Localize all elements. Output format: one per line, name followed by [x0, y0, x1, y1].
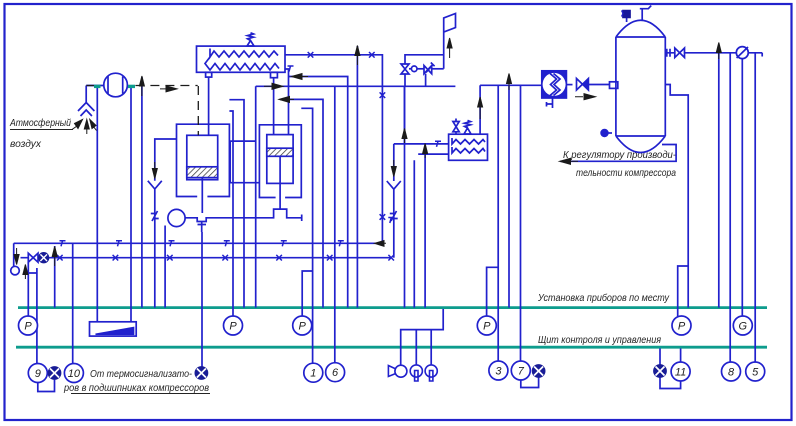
wire: HX1 right nozzle to cylinder 2	[273, 78, 275, 135]
svg-text:G: G	[739, 321, 748, 333]
valve V1	[401, 64, 409, 74]
dashed control line	[86, 85, 94, 87]
wire: drop to item 10	[72, 243, 74, 363]
valve V2 on AT2	[453, 119, 459, 135]
wire: manifold stub	[229, 100, 244, 308]
wire: funnel 2 to X-line	[393, 198, 395, 258]
svg-text:8: 8	[728, 367, 735, 379]
heat exchanger AT1 (intercooler)	[197, 46, 286, 72]
wire: funnel feed	[155, 139, 177, 181]
piston rod 1	[201, 178, 203, 213]
wire: AT1 second outlet to cylinder 2	[285, 69, 289, 135]
signal lamp	[654, 365, 667, 378]
flow arrow right below check valve	[575, 94, 595, 100]
item 9	[28, 364, 47, 383]
wire: AT2 drain lines	[413, 160, 415, 307]
svg-text:тельности компрессора: тельности компрессора	[576, 167, 676, 179]
flow arrow up	[716, 43, 721, 60]
T marks on T-line	[60, 241, 66, 247]
wire: AT1 outlet header	[285, 55, 382, 244]
crank drive line	[185, 209, 302, 221]
stub to lamp	[659, 349, 661, 365]
X marks on X-line	[57, 255, 63, 261]
drain funnel 2	[387, 181, 401, 198]
check valve	[577, 79, 583, 91]
X marks on process lines	[308, 52, 314, 58]
wire: jog to gauge P3	[302, 271, 312, 316]
flow arrow up to flag	[447, 38, 452, 58]
svg-text:От термосигнализато-: От термосигнализато-	[90, 368, 192, 380]
wire: drain to funnel 2	[393, 144, 395, 181]
valve V3	[675, 48, 685, 58]
signal flag	[444, 14, 456, 69]
wire: flag branch	[405, 55, 444, 64]
svg-text:P: P	[229, 321, 237, 333]
svg-text:Щит контроля и управления: Щит контроля и управления	[538, 334, 661, 346]
item 3	[489, 361, 508, 380]
wire: drop to item 8	[729, 53, 731, 362]
wire: check valve to vessel	[588, 84, 609, 86]
flow arrow left	[279, 96, 294, 102]
svg-text:5: 5	[752, 367, 759, 379]
nozzle	[271, 72, 278, 77]
angle valve	[424, 63, 435, 74]
wire: cylinder 2 right stub	[301, 108, 312, 363]
wire: jog to gauge P5	[678, 266, 689, 316]
air receiver vessel B1	[616, 20, 665, 152]
flow arrow up	[478, 97, 483, 119]
svg-text:7: 7	[518, 366, 525, 378]
wire: HX1 left nozzle to cylinder 1	[208, 77, 210, 135]
alarm horn	[388, 365, 407, 377]
pipe break symbol	[151, 211, 159, 221]
compressor cylinder 2 jacket	[259, 125, 301, 198]
crosshead 1	[198, 222, 207, 233]
gauge P3	[293, 316, 312, 335]
wire: drop to item 5	[754, 53, 756, 362]
piston 1	[187, 167, 218, 178]
wire: T-line tap to gauge	[13, 243, 15, 266]
inclined manometer	[90, 322, 137, 336]
svg-text:3: 3	[495, 366, 502, 378]
signal lamp	[195, 367, 208, 380]
wire: bus to AT3	[566, 84, 572, 86]
wire: discharge bus	[256, 85, 456, 87]
wire: vessel outlet to regulator	[560, 145, 676, 162]
gauge P2	[224, 316, 243, 335]
valve V4	[28, 253, 38, 262]
wire: drop to item 3	[497, 85, 499, 361]
svg-text:10: 10	[68, 368, 81, 380]
T-line (impulse bus)	[14, 242, 383, 244]
item 10	[64, 364, 83, 383]
green ticks at filter	[94, 85, 101, 88]
svg-text:P: P	[24, 321, 32, 333]
svg-text:ров в подшипниках компрессоров: ров в подшипниках компрессоров	[63, 382, 209, 394]
pilot circle	[411, 66, 417, 72]
wire: drop to boundary	[508, 85, 510, 307]
flow arrow down to funnel 1	[152, 162, 157, 179]
piston 2	[267, 148, 293, 156]
X-line (electric bus)	[21, 257, 392, 259]
svg-text:9: 9	[35, 368, 41, 380]
indicator lamp	[410, 365, 422, 381]
flow arrow up	[402, 129, 407, 144]
svg-text:Атмосферный: Атмосферный	[9, 117, 71, 129]
svg-text:1: 1	[310, 368, 316, 380]
wire: crank drain	[164, 226, 166, 308]
drain funnel 1	[148, 181, 162, 198]
svg-text:P: P	[483, 321, 491, 333]
vessel vent flag	[640, 6, 651, 21]
svg-text:P: P	[299, 321, 307, 333]
item 5	[746, 362, 765, 381]
bracket 9 to lamp	[38, 380, 55, 392]
wire: line to item 6	[334, 86, 336, 363]
bracket 7 to lamp	[521, 378, 539, 388]
gauge P1	[19, 316, 38, 335]
boundary line: control board	[16, 346, 767, 349]
indicator lamp	[425, 365, 437, 381]
wire: drop to item 7	[520, 85, 522, 361]
flow arrow up	[139, 76, 144, 96]
aftercooler AT3	[542, 71, 567, 108]
stub to item 11	[680, 349, 682, 363]
wire: jog to gauge P4	[487, 267, 499, 316]
wire: drop to gauge G	[741, 59, 743, 317]
T marks on lines	[288, 66, 294, 72]
boundary line: local instruments	[18, 306, 767, 309]
wire: drop to item 9	[25, 268, 37, 363]
svg-text:К регулятору производи-: К регулятору производи-	[563, 149, 676, 161]
wire: drop to boundary	[718, 53, 720, 308]
wire: cylinder 2 control line	[289, 77, 348, 308]
gauge P5	[672, 316, 691, 335]
safety valve SV2 on AT2	[464, 120, 471, 134]
signal lamp	[48, 367, 61, 380]
wire: valve to bus	[404, 74, 407, 308]
wire: manifold stub	[229, 111, 233, 316]
safety valve SV1 on AT1	[247, 33, 254, 46]
wire: descender	[255, 86, 257, 307]
lamp feeder	[401, 309, 444, 365]
flow arrow up	[23, 265, 28, 280]
wire: drop	[141, 77, 143, 308]
vessel gas outlet flanges	[665, 49, 675, 57]
flow arrow left on T-line end	[375, 241, 387, 247]
item 1	[304, 363, 323, 382]
wire: AT2 feed	[394, 143, 449, 145]
wire: vessel right instrument tap	[665, 85, 688, 308]
wire: cylinder 2 unloader line	[280, 99, 323, 307]
wire: filter drop right	[130, 88, 132, 322]
vessel drain fitting	[607, 132, 612, 134]
svg-text:воздух: воздух	[10, 138, 42, 150]
intake arrows	[72, 120, 83, 130]
wire: bus segment to AT3	[480, 84, 542, 86]
svg-text:6: 6	[332, 367, 339, 379]
signal lamp	[532, 365, 545, 378]
wire: intake to filter	[86, 85, 104, 87]
svg-text:11: 11	[675, 367, 686, 379]
air intake chevron	[78, 86, 94, 117]
gauge P4	[477, 316, 496, 335]
wire: angle valve to bus	[425, 74, 427, 87]
flow arrow down	[14, 248, 19, 265]
flow arrow up	[507, 74, 512, 91]
wire: bus drop to AT2 feed	[404, 86, 406, 144]
svg-text:Установка приборов по месту: Установка приборов по месту	[537, 292, 669, 304]
vessel vent fitting	[626, 17, 628, 22]
flow arrow right on bus	[264, 83, 283, 89]
compressor cylinder 2	[267, 135, 293, 184]
flow arrow up	[52, 247, 57, 267]
orifice / sight glass	[736, 47, 748, 59]
item 11	[671, 362, 690, 381]
gas cooler AT2	[449, 134, 488, 160]
arrow on dashed line	[160, 86, 177, 92]
item 7	[511, 361, 530, 380]
local gauge circle	[11, 266, 20, 275]
wire: filter drop left	[96, 88, 98, 322]
svg-text:P: P	[678, 321, 686, 333]
pipe break symbol	[390, 211, 398, 221]
crankshaft M	[168, 209, 185, 226]
wire: drop	[54, 246, 56, 308]
item 6	[326, 363, 345, 382]
air filter F1	[104, 73, 128, 97]
flow arrow left to regulator	[560, 158, 579, 164]
flow arrow up	[355, 46, 360, 66]
flow arrow down to funnel 2	[391, 160, 396, 177]
wire: line with arrow	[356, 46, 358, 308]
nozzle	[206, 72, 212, 77]
wire: funnel line lower	[154, 198, 156, 308]
wire: drop to AT2 top	[479, 85, 481, 134]
flow arrow left	[292, 74, 309, 80]
compressor cylinder 1 jacket	[177, 124, 230, 196]
piston rod 2	[279, 156, 281, 209]
signal lamp at X-line	[39, 253, 49, 263]
vessel nozzle flange	[610, 82, 618, 89]
wire: manifold connector	[230, 141, 259, 183]
bracket lamp to 11	[660, 378, 681, 389]
wire: main gas line	[685, 53, 763, 57]
item 8	[722, 362, 741, 381]
wire: rod line to lamp	[201, 232, 203, 367]
gauge G	[733, 316, 752, 335]
compressor cylinder 1	[187, 135, 218, 179]
flow arrow up	[423, 144, 428, 159]
wire: valve drop to P1	[27, 262, 29, 316]
